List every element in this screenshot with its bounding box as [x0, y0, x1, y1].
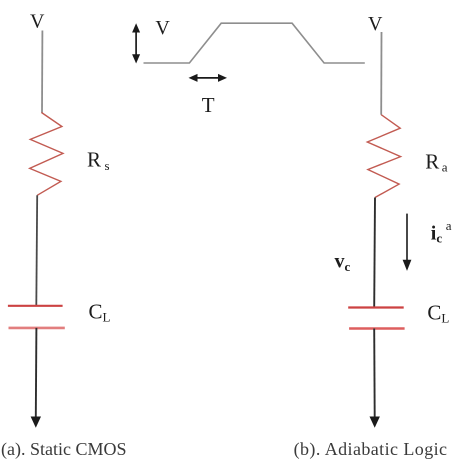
svg-text:V: V — [30, 11, 45, 33]
svg-text:(a). Static CMOS: (a). Static CMOS — [1, 439, 127, 460]
svg-text:ic: ic — [431, 223, 443, 246]
waveform vertical amplitude arrow — [132, 23, 140, 63]
wire from V to resistor Rs — [41, 31, 43, 114]
svg-text:Rs: Rs — [87, 148, 110, 173]
svg-text:a: a — [446, 218, 452, 233]
capacitor CL (right) top plate — [348, 306, 404, 308]
resistor Rs — [30, 113, 63, 196]
svg-text:vc: vc — [335, 250, 351, 273]
svg-text:CL: CL — [89, 299, 111, 324]
waveform trapezoid — [144, 23, 365, 63]
svg-text:(b). Adiabatic Logic: (b). Adiabatic Logic — [294, 439, 448, 460]
wire from CL to ground arrow (left) — [35, 328, 38, 418]
svg-text:V: V — [368, 13, 383, 35]
wire from Rs to capacitor CL (left) — [35, 195, 38, 305]
svg-text:V: V — [155, 17, 170, 39]
wire from CL to ground arrow (right) — [373, 329, 376, 418]
capacitor CL (left) top plate — [8, 305, 63, 307]
capacitor CL (right) bottom plate — [349, 327, 405, 329]
wire from V to resistor Ra — [380, 32, 382, 115]
waveform T duration arrow — [189, 74, 228, 82]
svg-text:Ra: Ra — [425, 149, 448, 174]
ground arrow (left) — [31, 417, 41, 428]
capacitor CL (left) bottom plate — [9, 327, 65, 330]
current arrow ic — [403, 214, 412, 271]
svg-text:T: T — [202, 93, 215, 117]
wire from Ra to capacitor CL (right) — [373, 198, 376, 308]
ground arrow (right) — [370, 417, 380, 428]
resistor Ra — [367, 115, 400, 198]
svg-text:CL: CL — [427, 300, 449, 325]
